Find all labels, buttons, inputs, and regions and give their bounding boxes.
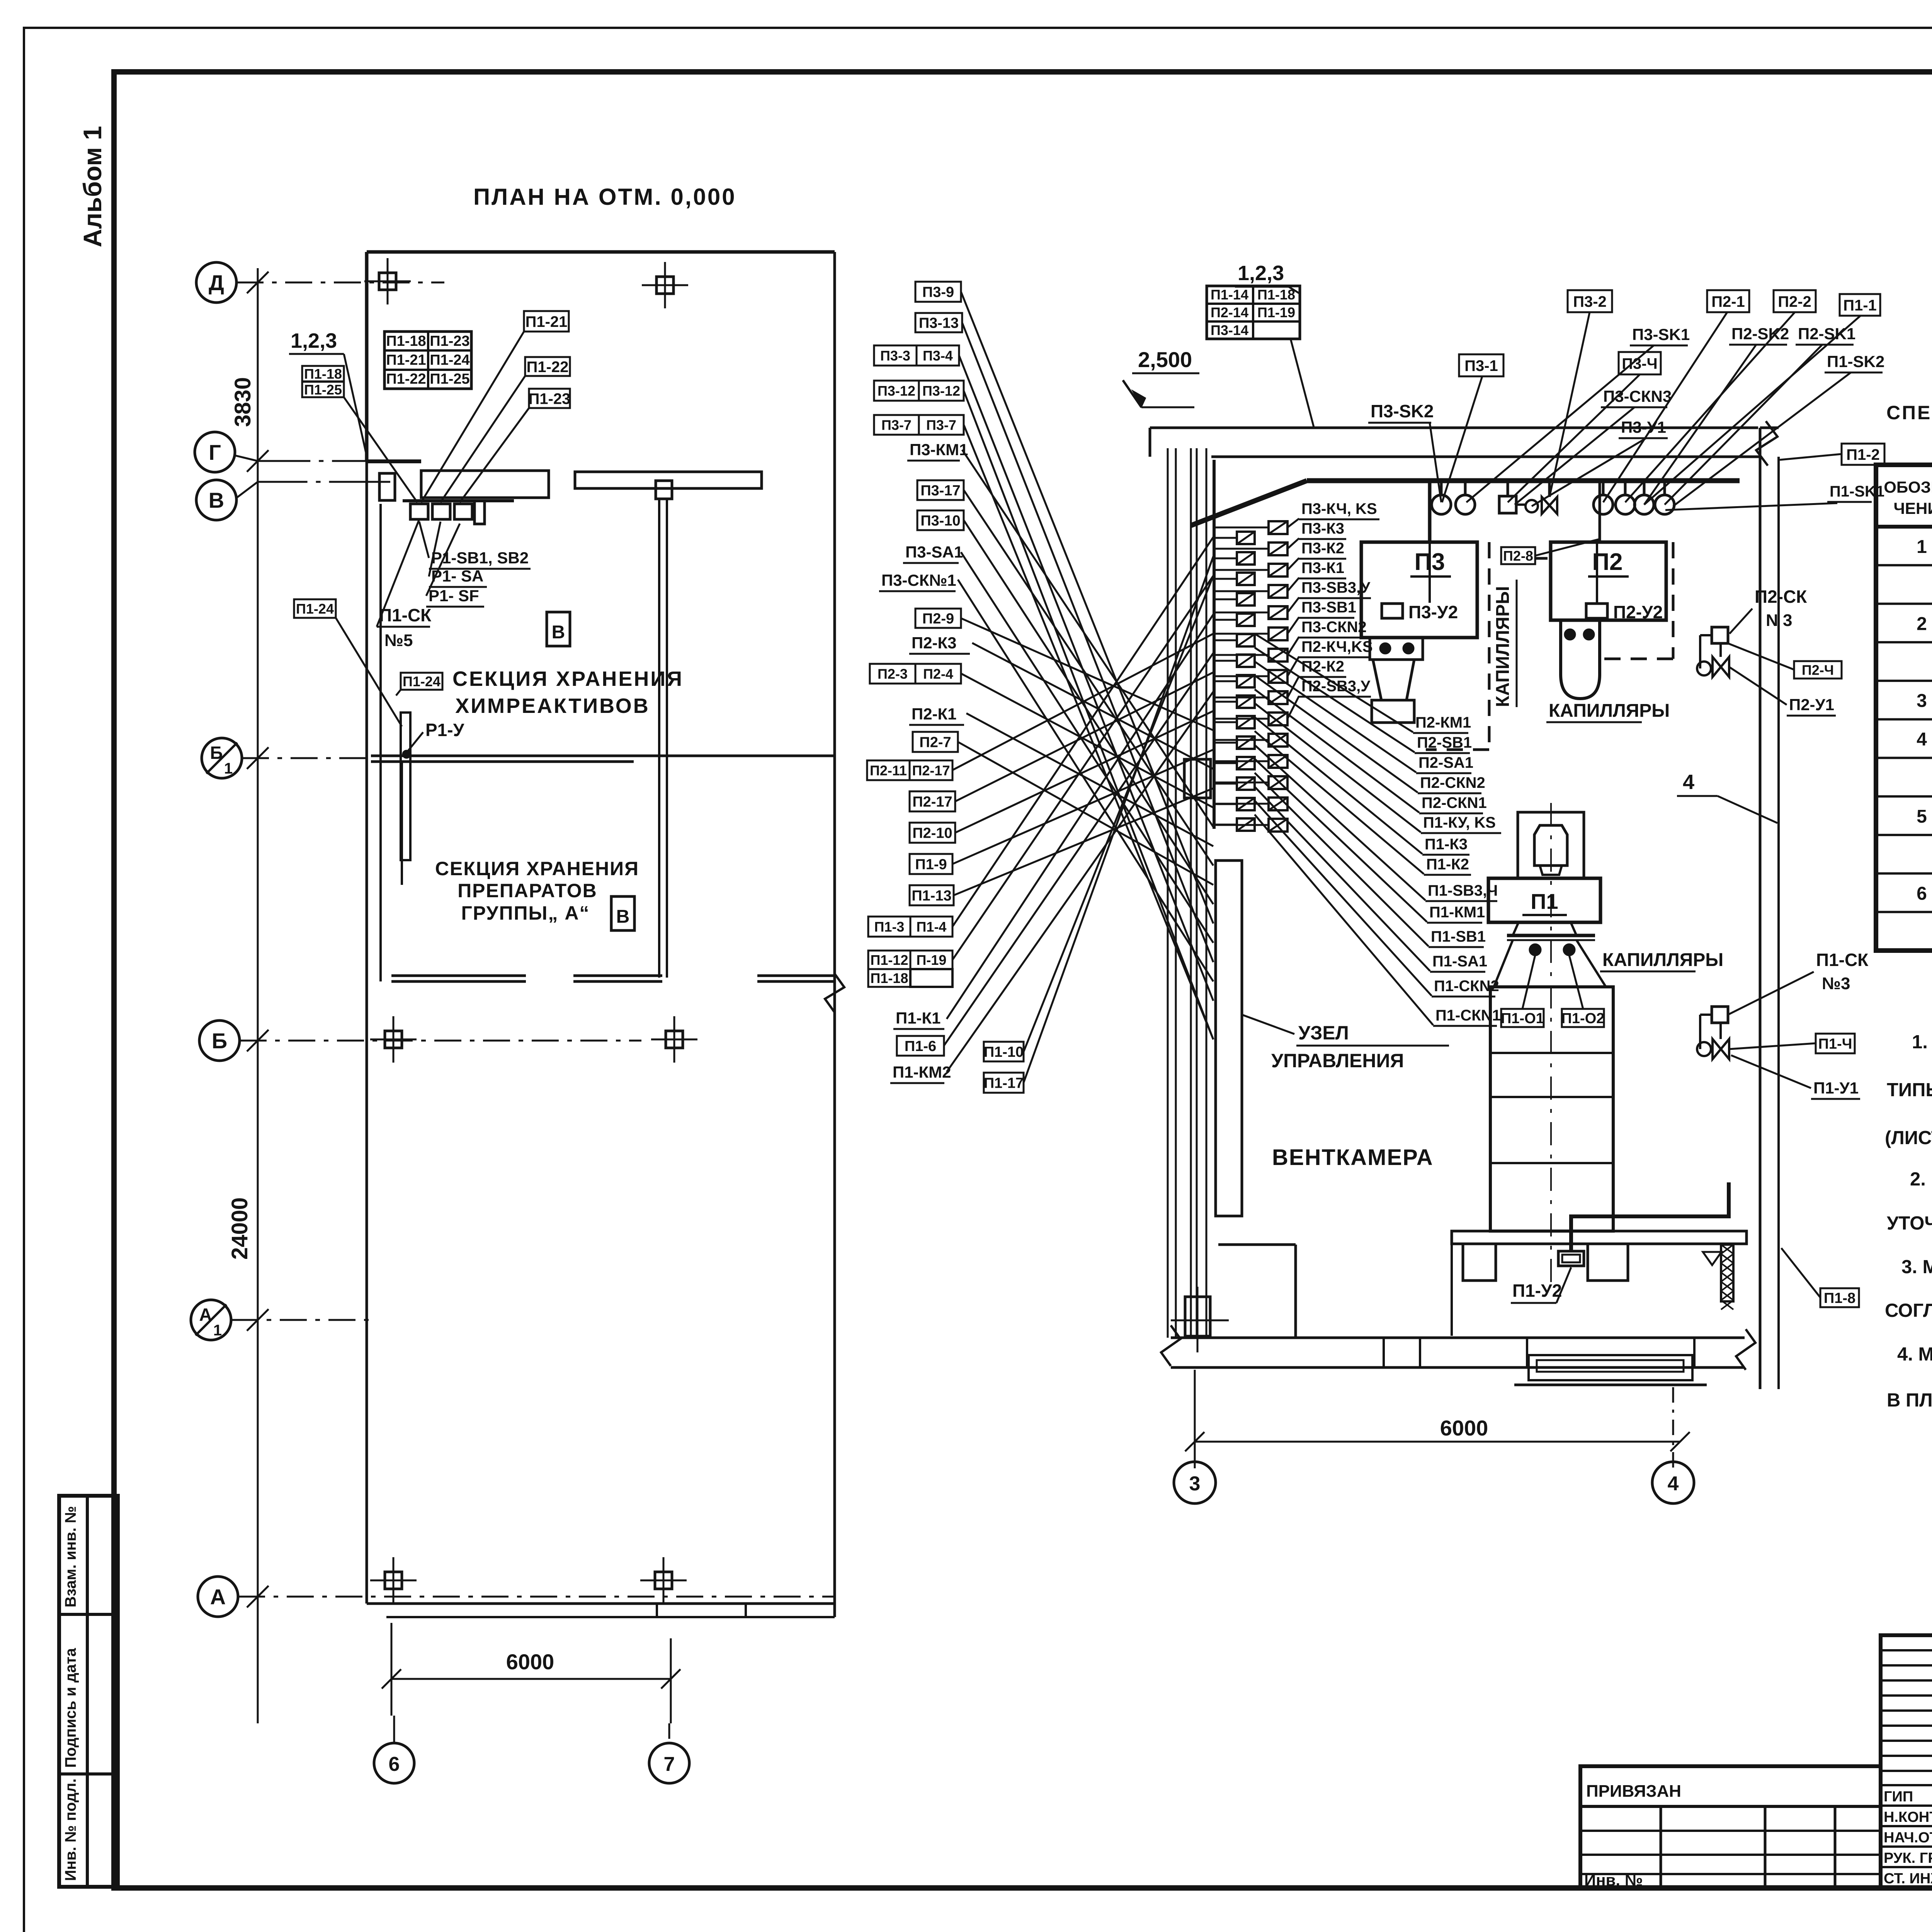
svg-text:П1-У1: П1-У1 <box>1813 1079 1859 1097</box>
label П1-SB3,Ч <box>1425 882 1498 901</box>
P2-У2 device <box>1586 604 1607 618</box>
svg-text:П3-СК№1: П3-СК№1 <box>881 571 956 589</box>
label П3-SA1 <box>903 543 963 563</box>
leader П1-3 <box>952 537 1213 927</box>
P1 fan frame <box>1518 812 1584 878</box>
svg-text:П2-SB3,У: П2-SB3,У <box>1301 678 1371 695</box>
label П1-СКN1 <box>1433 1007 1501 1026</box>
svg-text:П3-СКN3: П3-СКN3 <box>1603 387 1672 405</box>
svg-text:6: 6 <box>389 1753 400 1776</box>
callout П2-11|П2-17 <box>867 760 952 780</box>
P3 unit <box>1361 542 1477 638</box>
svg-text:1: 1 <box>1917 537 1927 557</box>
svg-text:П3-3: П3-3 <box>880 348 910 364</box>
P3 lower box with dots <box>1370 638 1423 660</box>
P1 tower <box>1490 987 1613 1231</box>
P2 unit <box>1551 542 1666 620</box>
equipment box <box>432 504 450 519</box>
callout П1-17 <box>984 1073 1024 1093</box>
P1 skirt <box>1494 940 1513 987</box>
label П3-SK1 <box>1630 325 1690 345</box>
sensor small circle <box>1526 500 1538 512</box>
callout П1-24b <box>294 599 336 618</box>
label П2-К2 <box>1299 658 1346 677</box>
label П2-СКN1 <box>1419 794 1487 813</box>
grid axis Д <box>196 262 236 303</box>
svg-text:П1-СК: П1-СК <box>379 605 432 625</box>
svg-text:В ПЛАНЕ НЕ ОБОЗНАЧЕНЫ.: В ПЛАНЕ НЕ ОБОЗНАЧЕНЫ. <box>1887 1390 1932 1411</box>
sensor circle <box>1440 481 1443 495</box>
svg-text:№3: №3 <box>1822 974 1850 993</box>
P1-У2 device and label <box>1558 1251 1584 1266</box>
label P1-SF <box>426 587 484 607</box>
axis line D <box>236 282 444 284</box>
P3-У2 device <box>1382 604 1403 618</box>
P1 fan motor <box>1534 825 1567 866</box>
leader П3-9 <box>961 292 1213 923</box>
equipment box narrow <box>474 501 485 524</box>
column marker <box>640 1557 687 1604</box>
svg-text:Н.КОНТР.: Н.КОНТР. <box>1884 1809 1932 1825</box>
svg-text:П1-КМ2: П1-КМ2 <box>893 1063 951 1081</box>
svg-text:П2-11: П2-11 <box>870 762 907 778</box>
capillary dashed lines <box>1488 542 1491 750</box>
svg-text:КАПИЛЛЯРЫ: КАПИЛЛЯРЫ <box>1602 950 1723 970</box>
label П2-КЧ,KS <box>1299 638 1373 657</box>
svg-text:П2-СКN2: П2-СКN2 <box>1420 774 1485 791</box>
callout П1-3|П1-4 <box>868 917 952 937</box>
svg-text:П1-14: П1-14 <box>1211 287 1248 303</box>
svg-text:6: 6 <box>1917 883 1927 904</box>
svg-text:ТИПЫ КАБЕЛЕЙ И ТРУБ СООТВЕ: ТИПЫ КАБЕЛЕЙ И ТРУБ СООТВЕТСТВУЮТ СХЕМЕ … <box>1887 1079 1932 1100</box>
leader П3-SA1 <box>961 552 1213 943</box>
svg-text:3830: 3830 <box>230 377 255 427</box>
instrument box L5 <box>1237 634 1255 646</box>
callout П2-7 <box>913 732 958 752</box>
instrument box L8 <box>1237 696 1255 708</box>
svg-text:П3-10: П3-10 <box>920 513 960 529</box>
svg-text:П2-2: П2-2 <box>1778 293 1811 310</box>
axis line A <box>238 1596 835 1598</box>
callout П3-13 <box>915 313 962 332</box>
triangle marker <box>1703 1252 1721 1265</box>
P1 neck <box>1513 922 1519 935</box>
bottom wall <box>1171 1337 1745 1339</box>
label П3-SK2 <box>1368 401 1434 423</box>
svg-text:Инв. №: Инв. № <box>1584 1871 1643 1889</box>
svg-text:П2-7: П2-7 <box>919 735 951 751</box>
ventkamera walls top <box>1150 427 1758 429</box>
svg-text:П2-SA1: П2-SA1 <box>1418 754 1473 771</box>
axis line B1 <box>242 757 371 759</box>
svg-text:П-19: П-19 <box>917 952 947 968</box>
leader П3-17 <box>964 490 1213 866</box>
svg-text:П2-КМ1: П2-КМ1 <box>1415 714 1471 731</box>
P2 valve assembly <box>1712 627 1728 643</box>
callout П1-24 <box>401 673 442 690</box>
building outline top wall <box>367 250 835 254</box>
svg-text:П2-СК: П2-СК <box>1755 587 1807 607</box>
callout П1-9 <box>910 854 952 874</box>
svg-text:П1-19: П1-19 <box>1257 304 1295 320</box>
svg-text:СЕКЦИЯ ХРАНЕНИЯ: СЕКЦИЯ ХРАНЕНИЯ <box>452 667 684 690</box>
instrument box R0 <box>1269 521 1287 534</box>
bottom column pilaster <box>1171 1287 1229 1352</box>
callout П1-13 <box>910 885 954 905</box>
callout П1-8 <box>1820 1288 1859 1307</box>
svg-text:4: 4 <box>1683 770 1694 794</box>
svg-text:2: 2 <box>1917 614 1927 634</box>
sensor circle <box>1624 481 1627 495</box>
instrument box R8 <box>1269 691 1287 704</box>
instrument box R6 <box>1269 649 1287 662</box>
leader П1-К1 <box>947 614 1213 1019</box>
svg-text:П2-У1: П2-У1 <box>1789 696 1834 714</box>
leader П1-9 <box>952 750 1213 864</box>
svg-text:(ЛИСТЫ 5, 6, 7): (ЛИСТЫ 5, 6, 7) <box>1885 1128 1932 1148</box>
svg-text:В: В <box>209 488 224 512</box>
svg-text:П1-СК: П1-СК <box>1816 950 1869 970</box>
break marks bottom <box>1161 1325 1180 1366</box>
label П3-КЧ, KS <box>1299 500 1379 519</box>
svg-text:П3-17: П3-17 <box>920 483 960 499</box>
svg-text:П1-18: П1-18 <box>304 366 342 382</box>
instrument box L0 <box>1237 532 1255 544</box>
equipment row baseline <box>403 499 514 502</box>
svg-text:РУК. ГР.: РУК. ГР. <box>1884 1850 1932 1866</box>
svg-text:П3-7: П3-7 <box>881 417 912 433</box>
thick cable bus <box>1191 481 1307 526</box>
column marker <box>651 1016 697 1063</box>
wall device strip <box>401 713 410 860</box>
equipment box <box>410 504 428 519</box>
leader П3-7 <box>964 425 1213 1039</box>
svg-text:П2-К3: П2-К3 <box>912 634 957 652</box>
sensor circle <box>1663 481 1666 495</box>
svg-text:П3-2: П3-2 <box>1573 293 1607 310</box>
label П1-СКN2 <box>1432 978 1499 997</box>
callout П2-9 <box>915 609 961 628</box>
instrument box L6 <box>1237 655 1255 667</box>
leader П3-13 <box>962 323 1213 962</box>
callout П2-Ч <box>1794 661 1842 679</box>
svg-text:П1-24: П1-24 <box>403 673 440 689</box>
thick cable route 4 <box>1571 1182 1729 1251</box>
svg-text:П1-17: П1-17 <box>984 1075 1024 1092</box>
wall at axis G <box>367 459 421 463</box>
instrument box R1 <box>1269 543 1287 555</box>
svg-text:ОБОЗНА-: ОБОЗНА- <box>1884 478 1932 496</box>
grid circle 7 <box>649 1743 689 1783</box>
svg-text:П2-3: П2-3 <box>878 666 908 682</box>
svg-text:3: 3 <box>1189 1473 1201 1495</box>
label П3-СК№1 <box>879 571 956 591</box>
svg-text:П1-4: П1-4 <box>917 919 947 935</box>
svg-text:П2-10: П2-10 <box>912 825 952 842</box>
callout П3-Ч <box>1619 352 1661 374</box>
break mark right wall top <box>1756 421 1777 466</box>
callout П2-1 <box>1707 290 1749 312</box>
svg-text:П2-СКN1: П2-СКN1 <box>1422 794 1487 811</box>
svg-text:П1-21: П1-21 <box>386 352 426 368</box>
svg-text:НАЧ.ОТД.: НАЧ.ОТД. <box>1884 1830 1932 1846</box>
instrument box L14 <box>1237 818 1255 831</box>
room marker B2 <box>611 896 634 930</box>
svg-text:Г: Г <box>209 440 221 464</box>
label П3-SB1 <box>1299 599 1356 618</box>
callout П3-12|П3-12 <box>874 381 964 401</box>
svg-text:П3-12: П3-12 <box>878 383 915 399</box>
svg-text:П1-24: П1-24 <box>296 601 334 617</box>
instrument attach line <box>1213 460 1216 829</box>
svg-text:Подпись и дата: Подпись и дата <box>62 1648 79 1768</box>
bench below wall <box>1529 1355 1692 1380</box>
callout table P1-18..P1-25 <box>384 332 471 389</box>
leader П3-3 <box>959 355 1213 1001</box>
svg-text:П3-КМ1: П3-КМ1 <box>910 440 968 459</box>
leader П1-6 <box>944 653 1213 1046</box>
svg-text:СПЕЦИФИКАЦИЯ ОСНОВНЫХ МОНТАЖ: СПЕЦИФИКАЦИЯ ОСНОВНЫХ МОНТАЖНЫХ МАТЕРИАЛ… <box>1886 401 1932 423</box>
svg-text:П1-25: П1-25 <box>304 382 342 398</box>
leader П2-3 <box>961 673 1213 808</box>
svg-text:КАПИЛЛЯРЫ: КАПИЛЛЯРЫ <box>1549 701 1670 721</box>
cable riser bundle <box>1167 448 1169 1338</box>
label П1-КУ, KS <box>1421 814 1501 833</box>
label P1-SB1 SB2 <box>429 549 531 569</box>
label П1-SK2 <box>1825 352 1884 372</box>
svg-text:Б: Б <box>212 1029 227 1053</box>
svg-text:П3-У2: П3-У2 <box>1408 602 1458 622</box>
svg-text:Б: Б <box>210 743 223 763</box>
svg-text:СОГЛАСНО СТРОИТЕЛЬНЫМ НОРМАМ: СОГЛАСНО СТРОИТЕЛЬНЫМ НОРМАМ И ПРАВИЛАМ … <box>1885 1300 1932 1321</box>
svg-text:ХИМРЕАКТИВОВ: ХИМРЕАКТИВОВ <box>455 694 650 718</box>
callout П1-6 <box>897 1036 944 1056</box>
dim 6000 left plan <box>391 1678 671 1680</box>
equipment box <box>454 504 472 519</box>
T-wall stem head <box>656 481 672 499</box>
svg-text:П1-SK2: П1-SK2 <box>1827 352 1884 371</box>
svg-text:24000: 24000 <box>227 1197 252 1260</box>
svg-text:П2-1: П2-1 <box>1711 293 1745 310</box>
column marker <box>642 262 688 308</box>
svg-text:П3-7: П3-7 <box>926 417 956 433</box>
T-shaped wall bar <box>575 472 762 488</box>
svg-text:П3-SA1: П3-SA1 <box>905 543 963 561</box>
instrument box R7 <box>1269 670 1287 683</box>
callout П1-12|П-19 <box>868 951 952 969</box>
svg-text:П1-К3: П1-К3 <box>1425 836 1468 853</box>
callout П2-3|П2-4 <box>870 664 961 684</box>
label П1-К2 <box>1424 856 1471 875</box>
svg-text:П2-К1: П2-К1 <box>912 705 957 723</box>
svg-text:П1-10: П1-10 <box>984 1044 1024 1060</box>
axis line A1 <box>231 1319 371 1321</box>
instrument box R13 <box>1269 798 1287 810</box>
label П1-КМ1 <box>1427 904 1485 923</box>
svg-text:В: В <box>552 622 565 643</box>
label П2-SA1 <box>1416 754 1473 773</box>
callout П1-25 stack bot <box>302 382 344 398</box>
bus drop to P3 <box>1428 481 1432 542</box>
svg-text:П3-12: П3-12 <box>922 383 960 399</box>
callout П3-2 <box>1568 290 1612 312</box>
svg-text:3: 3 <box>1917 691 1927 711</box>
instrument box R10 <box>1269 734 1287 747</box>
break mark right wall <box>825 974 844 1012</box>
svg-text:П3-4: П3-4 <box>923 348 953 364</box>
svg-text:П1-2: П1-2 <box>1846 446 1880 463</box>
svg-text:П2-У2: П2-У2 <box>1613 602 1663 622</box>
svg-text:П1-23: П1-23 <box>529 390 571 407</box>
svg-text:№5: №5 <box>384 631 413 650</box>
vert wall stub below B1 <box>401 762 403 885</box>
hatched column <box>1721 1245 1733 1310</box>
instrument box L10 <box>1237 736 1255 749</box>
leader П3-12 <box>964 391 1213 1039</box>
grid axis Г <box>195 432 235 472</box>
svg-text:П1-18: П1-18 <box>871 970 908 986</box>
grid axis Б/1 <box>202 738 242 778</box>
wall between sections (axis B1) <box>371 755 835 757</box>
room marker B1 <box>547 612 570 646</box>
svg-text:П2-4: П2-4 <box>923 666 953 682</box>
svg-text:П3-SB3,У: П3-SB3,У <box>1301 579 1371 596</box>
svg-text:ЧЕНИЕ: ЧЕНИЕ <box>1893 499 1932 517</box>
label П1-У1 <box>1811 1079 1860 1099</box>
svg-text:Альбом 1: Альбом 1 <box>78 126 107 247</box>
callout П1-2 <box>1842 444 1884 465</box>
svg-text:П1-25: П1-25 <box>430 371 469 387</box>
svg-text:П1-К1: П1-К1 <box>896 1009 941 1027</box>
dim 6000 middle <box>1195 1441 1680 1443</box>
label П2-К3 <box>909 634 970 654</box>
svg-text:4: 4 <box>1917 729 1927 750</box>
building right wall <box>833 252 836 1617</box>
instrument box L4 <box>1237 614 1255 626</box>
axis line V <box>236 482 390 498</box>
svg-text:П3-13: П3-13 <box>919 315 959 332</box>
bottom left room <box>1218 1243 1296 1246</box>
svg-text:П1-6: П1-6 <box>905 1038 936 1054</box>
svg-text:P1- SF: P1- SF <box>429 587 479 605</box>
leader П3-10 <box>964 520 1213 904</box>
callout П1-18 stack top <box>302 366 344 382</box>
sensor circle <box>1643 481 1646 495</box>
svg-text:В: В <box>616 906 630 927</box>
svg-text:6000: 6000 <box>506 1650 554 1674</box>
svg-text:ГРУППЫ„ А“: ГРУППЫ„ А“ <box>461 902 590 924</box>
svg-text:П1-8: П1-8 <box>1824 1290 1855 1306</box>
label П2-SB3,У <box>1299 678 1371 697</box>
privyazan table <box>1580 1766 1881 1889</box>
leader П1-12 <box>952 576 1213 960</box>
instrument box R2 <box>1269 564 1287 577</box>
T-wall stem <box>658 499 660 978</box>
svg-text:П3-У1: П3-У1 <box>1621 418 1666 436</box>
svg-text:П3-К1: П3-К1 <box>1301 560 1344 577</box>
callout table П1-14 <box>1207 286 1300 339</box>
label П3-СКN2 <box>1299 619 1367 638</box>
svg-text:3. МОНТАЖ ПРИБОРОВ И СРЕДСТ: 3. МОНТАЖ ПРИБОРОВ И СРЕДСТВ АВТОМАТИЗАЦ… <box>1901 1257 1932 1277</box>
instrument box L3 <box>1237 593 1255 605</box>
instrument box R9 <box>1269 713 1287 725</box>
leader П2-7 <box>958 742 1213 885</box>
label П3-КМ1 <box>907 440 968 461</box>
grid axis А <box>198 1577 238 1617</box>
svg-text:ГИП: ГИП <box>1884 1789 1913 1805</box>
signature table <box>1881 1635 1932 1888</box>
svg-text:ВЕНТКАМЕРА: ВЕНТКАМЕРА <box>1272 1145 1434 1170</box>
svg-text:П1-18: П1-18 <box>1257 287 1295 303</box>
svg-text:П1: П1 <box>1531 889 1558 913</box>
label П2-СКN2 <box>1418 774 1485 793</box>
svg-text:П1-О1: П1-О1 <box>1501 1010 1544 1027</box>
svg-text:П1-О2: П1-О2 <box>1561 1010 1605 1027</box>
building left wall <box>365 252 369 461</box>
label П3-К1 <box>1299 560 1346 578</box>
spec table <box>1876 465 1932 951</box>
leader П2-К3 <box>972 643 1213 769</box>
P1-СК N3 right assembly <box>1712 1007 1728 1023</box>
grid circle 3 <box>1174 1462 1216 1503</box>
svg-text:П2-9: П2-9 <box>922 611 954 627</box>
svg-text:П3-СКN2: П3-СКN2 <box>1301 619 1367 636</box>
callout П1-23 <box>529 389 571 408</box>
svg-text:2. РАЗМЕЩЕНИЕ ПРИБОРОВ, СРЕДС: 2. РАЗМЕЩЕНИЕ ПРИБОРОВ, СРЕДСТВ АВТОМАТИ… <box>1910 1169 1932 1190</box>
instrument box R4 <box>1269 606 1287 619</box>
svg-text:Инв. № подл.: Инв. № подл. <box>62 1779 79 1881</box>
svg-text:П3-К2: П3-К2 <box>1301 540 1344 557</box>
label П2-SK2 <box>1729 325 1789 345</box>
svg-text:П1-Ч: П1-Ч <box>1818 1036 1852 1052</box>
callout П3-17 <box>917 480 964 500</box>
label П3-К2 <box>1299 540 1346 559</box>
svg-text:1,2,3: 1,2,3 <box>291 329 337 352</box>
svg-text:П2-17: П2-17 <box>912 762 950 778</box>
instrument box R11 <box>1269 755 1287 768</box>
grid circle 4 <box>1652 1462 1694 1503</box>
svg-text:П3-SB1: П3-SB1 <box>1301 599 1356 616</box>
label П1-SB1 <box>1429 928 1486 947</box>
column marker <box>370 1557 417 1604</box>
svg-text:А: А <box>199 1304 212 1325</box>
label П1-SK1 <box>1827 483 1884 502</box>
svg-text:УТОЧНИТЬ ПРИ МОНТАЖЕ.: УТОЧНИТЬ ПРИ МОНТАЖЕ. <box>1887 1213 1932 1234</box>
P3 funnel <box>1373 660 1414 700</box>
callout П1-10 <box>984 1042 1024 1061</box>
leader П2-9 <box>961 618 1213 730</box>
P1 center axis <box>1550 803 1552 1288</box>
label П1-КМ2 <box>890 1063 951 1083</box>
grid axis Б <box>199 1020 240 1061</box>
control unit rect <box>1216 861 1242 1216</box>
svg-text:П1-КМ1: П1-КМ1 <box>1429 904 1485 921</box>
svg-text:П1-КУ, KS: П1-КУ, KS <box>1423 814 1496 831</box>
label П1-К3 <box>1422 836 1469 855</box>
label П3-СКN3 <box>1601 387 1672 407</box>
svg-text:П3-9: П3-9 <box>922 284 954 301</box>
svg-text:П1-23: П1-23 <box>430 333 469 349</box>
svg-text:П1-21: П1-21 <box>526 313 568 330</box>
sensor circle <box>1464 481 1467 495</box>
callout П1-О2 <box>1561 1009 1605 1027</box>
label П2-SB1 <box>1415 734 1472 753</box>
svg-text:6000: 6000 <box>1440 1416 1488 1440</box>
callout П2-17 <box>910 791 955 811</box>
svg-text:1,2,3: 1,2,3 <box>1238 262 1284 285</box>
svg-text:1: 1 <box>224 760 233 777</box>
leader П3-КМ1 <box>962 450 1213 827</box>
